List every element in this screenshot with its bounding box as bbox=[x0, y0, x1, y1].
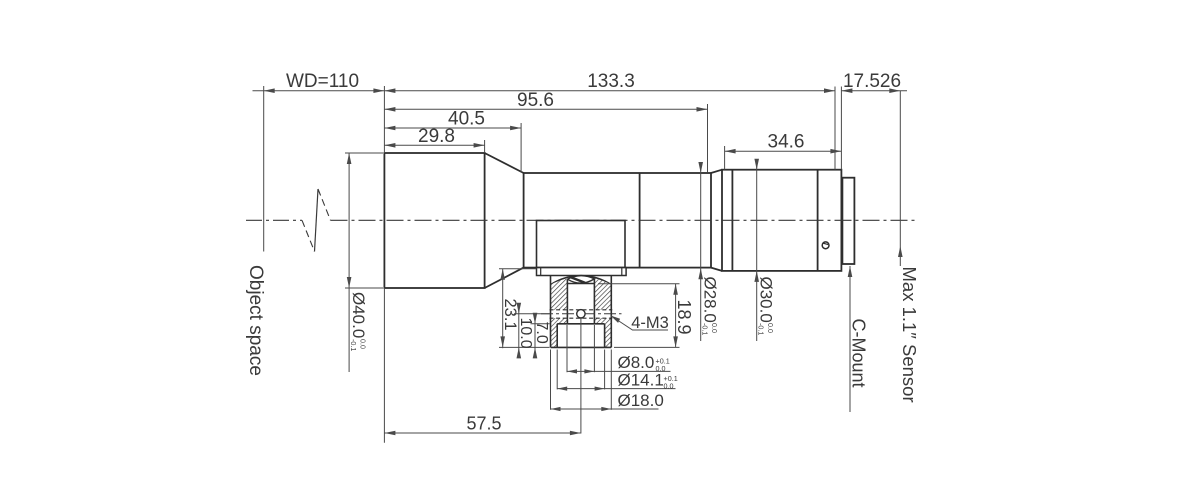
foot hatch left upper bbox=[551, 279, 568, 310]
extension line Ø8 left bbox=[566, 325, 568, 372]
extension line foot bottom left bbox=[499, 346, 550, 348]
svg-text:0.0: 0.0 bbox=[710, 323, 719, 333]
extension line object space bbox=[263, 86, 265, 252]
dimension 23.1 bbox=[502, 269, 504, 348]
dimension 34.6 bbox=[725, 150, 842, 152]
svg-text:C-Mount: C-Mount bbox=[849, 319, 869, 388]
mid barrel Ø28 section bbox=[524, 173, 711, 268]
extension line Ø40 bottom bbox=[345, 287, 383, 289]
dimension 57.5 bbox=[384, 432, 581, 434]
extension line Ø14.1 right bbox=[604, 350, 606, 390]
foot hatch right lower bbox=[605, 324, 612, 348]
M3 hole circle bbox=[577, 310, 585, 318]
dimension 40.5 bbox=[384, 127, 521, 129]
svg-text:-0.1: -0.1 bbox=[757, 323, 766, 335]
counterbore wall left bbox=[556, 324, 558, 348]
svg-text:Max 1.1″ Sensor: Max 1.1″ Sensor bbox=[899, 267, 920, 403]
dimension 7.0 bbox=[534, 316, 536, 359]
rear cone step bbox=[711, 170, 722, 173]
dimension Ø28.0 bbox=[700, 166, 702, 341]
extension line 95.6 end bbox=[707, 104, 709, 172]
dimension 18.9 bbox=[675, 284, 677, 348]
bore eye intersection bbox=[567, 276, 594, 284]
extension line 40.5 end bbox=[520, 123, 522, 173]
dimension 95.6 bbox=[384, 108, 707, 110]
svg-text:Ø18.0: Ø18.0 bbox=[618, 391, 664, 410]
svg-text:0.0: 0.0 bbox=[766, 323, 775, 333]
C-mount thread flange bbox=[842, 178, 854, 264]
svg-text:57.5: 57.5 bbox=[466, 413, 501, 433]
M3 hole axis bbox=[541, 313, 622, 315]
svg-text:0.0: 0.0 bbox=[359, 339, 368, 349]
extension line Ø8 right bbox=[593, 325, 595, 372]
extension line 7.0 top bbox=[531, 323, 550, 325]
plate tick right bbox=[621, 268, 623, 276]
dimension WD=110 bbox=[253, 90, 385, 92]
extension line lens rear face bbox=[840, 87, 842, 170]
barrel joint line bbox=[639, 173, 641, 268]
extension line 29.8 end bbox=[484, 140, 486, 152]
svg-text:Ø28.0: Ø28.0 bbox=[700, 277, 719, 323]
leader 4-M3 bbox=[611, 316, 669, 331]
extension line 10.0 top bbox=[514, 313, 550, 315]
svg-text:95.6: 95.6 bbox=[517, 90, 554, 111]
foot bottom edge bbox=[551, 346, 612, 348]
clamp base plate bbox=[537, 268, 627, 276]
leader C-Mount bbox=[849, 266, 851, 412]
cross hole hidden line top bbox=[550, 309, 613, 311]
svg-text:133.3: 133.3 bbox=[587, 71, 635, 92]
svg-text:18.9: 18.9 bbox=[674, 300, 694, 335]
extension line Ø40 top bbox=[345, 152, 383, 154]
rear barrel Ø30 section bbox=[722, 170, 841, 271]
dimension Ø8.0 bbox=[567, 370, 671, 372]
extension line 133.3 end bbox=[834, 87, 836, 170]
svg-text:23.1: 23.1 bbox=[501, 299, 519, 331]
foot outer wall left bbox=[550, 276, 552, 348]
extension line 23.1 top bbox=[499, 268, 536, 270]
svg-text:17.526: 17.526 bbox=[843, 71, 901, 92]
svg-text:Ø14.1: Ø14.1 bbox=[618, 370, 664, 389]
dimension 17.526 bbox=[841, 90, 907, 92]
plate tick left bbox=[540, 268, 542, 276]
counterbore wall right bbox=[604, 324, 606, 348]
extension line Ø14.1 left bbox=[556, 350, 558, 390]
extension line 34.6 start bbox=[724, 146, 726, 170]
svg-text:29.8: 29.8 bbox=[418, 126, 455, 147]
svg-text:-0.1: -0.1 bbox=[701, 323, 710, 335]
svg-text:Ø30.0: Ø30.0 bbox=[756, 277, 775, 323]
bore wall left bbox=[566, 279, 568, 324]
svg-text:4-M3: 4-M3 bbox=[631, 314, 669, 332]
mount foot dome saddle bbox=[551, 276, 612, 285]
svg-text:-0.1: -0.1 bbox=[349, 339, 358, 351]
svg-text:10.0: 10.0 bbox=[517, 318, 534, 349]
counterbore shoulder bbox=[557, 323, 604, 325]
cross hole hidden line bottom bbox=[550, 317, 613, 319]
set screw bbox=[822, 242, 829, 249]
dimension Ø40.0 bbox=[348, 153, 350, 372]
svg-text:WD=110: WD=110 bbox=[286, 71, 359, 92]
dimension 10.0 bbox=[518, 306, 520, 359]
clamp collar block bbox=[537, 221, 626, 268]
node break symbol on axis bbox=[302, 220, 315, 251]
bore wall right bbox=[593, 279, 595, 324]
foot hatch left lower bbox=[551, 324, 558, 348]
rear barrel ring line A bbox=[731, 170, 733, 271]
dimension Ø14.1 bbox=[557, 388, 675, 390]
svg-text:Ø8.0: Ø8.0 bbox=[618, 353, 655, 372]
lens front barrel (Ø40 group) bbox=[384, 153, 484, 288]
extension line lens front face bbox=[383, 86, 385, 153]
extension line foot axis bbox=[580, 319, 582, 434]
extension line 18.9 top bbox=[598, 283, 680, 285]
svg-text:7.0: 7.0 bbox=[533, 322, 550, 344]
wire centerline (optical axis) bbox=[246, 219, 302, 221]
foot outer wall right bbox=[610, 276, 612, 348]
image plane line bbox=[899, 91, 901, 266]
extension line Ø18 right bbox=[610, 350, 612, 410]
foot hatch left mid bbox=[551, 318, 568, 324]
svg-text:Ø40.0: Ø40.0 bbox=[349, 292, 368, 338]
dimension 29.8 bbox=[384, 144, 484, 146]
svg-text:0.0: 0.0 bbox=[664, 381, 674, 390]
dimension 133.3 bbox=[384, 90, 835, 92]
extension line Ø18 left bbox=[550, 350, 552, 410]
rear barrel ring line B bbox=[817, 170, 819, 271]
svg-text:Object space: Object space bbox=[245, 265, 266, 376]
foot hatch right upper bbox=[594, 279, 611, 310]
extension line 57.5 left bbox=[383, 288, 385, 443]
svg-text:34.6: 34.6 bbox=[768, 132, 805, 153]
taper cone section bbox=[485, 153, 524, 173]
foot hatch right mid bbox=[594, 318, 611, 324]
dimension Ø18.0 bbox=[551, 408, 659, 410]
dimension Ø30.0 bbox=[756, 164, 758, 341]
extension line 18.9 bottom bbox=[614, 346, 680, 348]
